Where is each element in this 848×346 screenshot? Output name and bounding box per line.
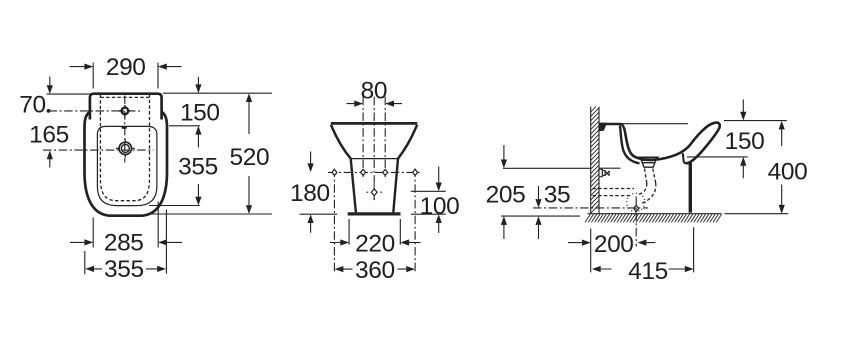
rear inlet slot <box>122 126 127 129</box>
pedestal sides <box>351 159 398 213</box>
svg-text:70: 70 <box>19 92 45 119</box>
svg-text:100: 100 <box>420 193 460 220</box>
bidet section profile: rim, basin, front beak <box>599 123 720 164</box>
drain flange <box>638 157 659 167</box>
back underside line <box>600 167 621 169</box>
outlet horizontal centerline (35) <box>533 207 648 209</box>
dim 205 (left of side view) <box>501 145 591 239</box>
outlet vertical centerline <box>635 197 637 247</box>
basin back outer (neck) <box>620 126 640 164</box>
pedestal leg front edge <box>689 163 692 213</box>
water inlet valve on wall <box>599 169 609 176</box>
svg-text:290: 290 <box>106 54 146 81</box>
fixing hole markers <box>332 169 418 175</box>
leg pocket <box>683 153 690 163</box>
bowl side rim edge (visible behind section) <box>622 123 688 125</box>
centerline through fixing hole <box>49 110 141 112</box>
svg-text:205: 205 <box>486 181 526 208</box>
centerline vertical (plan) <box>124 96 126 163</box>
right flare side <box>398 125 417 159</box>
svg-text:400: 400 <box>768 158 808 185</box>
dim 285 (bottom of plan) <box>70 202 182 248</box>
waist joint line <box>351 158 398 160</box>
dim 180 (left middle) <box>300 152 338 233</box>
floor outlet circle dotted <box>627 193 645 211</box>
dim 150 (right of side view) <box>687 100 787 179</box>
svg-text:220: 220 <box>355 231 395 258</box>
svg-text:35: 35 <box>544 181 570 208</box>
outlet center marker <box>634 205 639 211</box>
dim 150/355 (right of plan) <box>149 77 272 206</box>
svg-text:180: 180 <box>290 180 330 207</box>
fixing hole centerlines <box>363 97 385 177</box>
wall hatching <box>591 107 599 214</box>
tap hole marker (front) <box>367 184 382 200</box>
svg-text:355: 355 <box>178 154 218 181</box>
tap hole (plan) <box>116 139 135 157</box>
centerline through tap hole <box>43 149 154 151</box>
hidden bowl edge dashed outline <box>100 95 149 201</box>
dim 520 (far right of plan) <box>151 101 272 214</box>
trap vertical pipe dashed <box>645 169 656 184</box>
bidet body outer outline (plan) <box>85 112 168 216</box>
svg-text:360: 360 <box>355 257 395 284</box>
dim 70 (left) <box>47 77 90 95</box>
base bottom line <box>348 212 401 215</box>
dim 415 <box>601 227 694 272</box>
trap elbow dashed <box>638 183 656 204</box>
svg-text:285: 285 <box>104 230 144 257</box>
wall lines <box>591 107 599 214</box>
dim 35 <box>538 186 540 239</box>
svg-text:150: 150 <box>180 100 220 127</box>
svg-text:415: 415 <box>628 258 668 285</box>
svg-text:520: 520 <box>230 144 270 171</box>
horizontal centerline through holes <box>328 171 421 173</box>
center vertical centerline <box>373 97 375 202</box>
rim top line <box>331 122 418 125</box>
svg-text:165: 165 <box>29 122 69 149</box>
dim 360 (bottom middle) <box>343 268 406 270</box>
svg-text:355: 355 <box>104 256 144 283</box>
dim 220 (bottom middle) <box>330 219 421 245</box>
left flare side <box>331 125 351 159</box>
dim 355 (bottom of plan) <box>85 210 167 275</box>
dim 200 (below floor) <box>568 229 655 273</box>
dim 100 (right middle) <box>411 167 446 234</box>
dim 80 (top middle) <box>347 103 403 105</box>
svg-text:80: 80 <box>361 78 387 105</box>
svg-text:200: 200 <box>594 231 634 258</box>
floor line <box>588 213 722 215</box>
wall fixing bracket (filled) <box>599 123 607 131</box>
dim 290 (top) <box>70 63 182 89</box>
side hole centerlines (outer) <box>334 169 415 274</box>
fixing hole (plan) <box>119 105 131 117</box>
tap deck outline (plan) <box>90 94 162 120</box>
horizontal waste pipe to wall dashed <box>593 189 635 196</box>
dim 165 (left) <box>49 158 51 168</box>
svg-text:150: 150 <box>725 128 765 155</box>
dim 400 (far right) <box>725 128 789 214</box>
floor hatching <box>585 214 722 222</box>
inner rim line (plan) <box>97 126 156 205</box>
